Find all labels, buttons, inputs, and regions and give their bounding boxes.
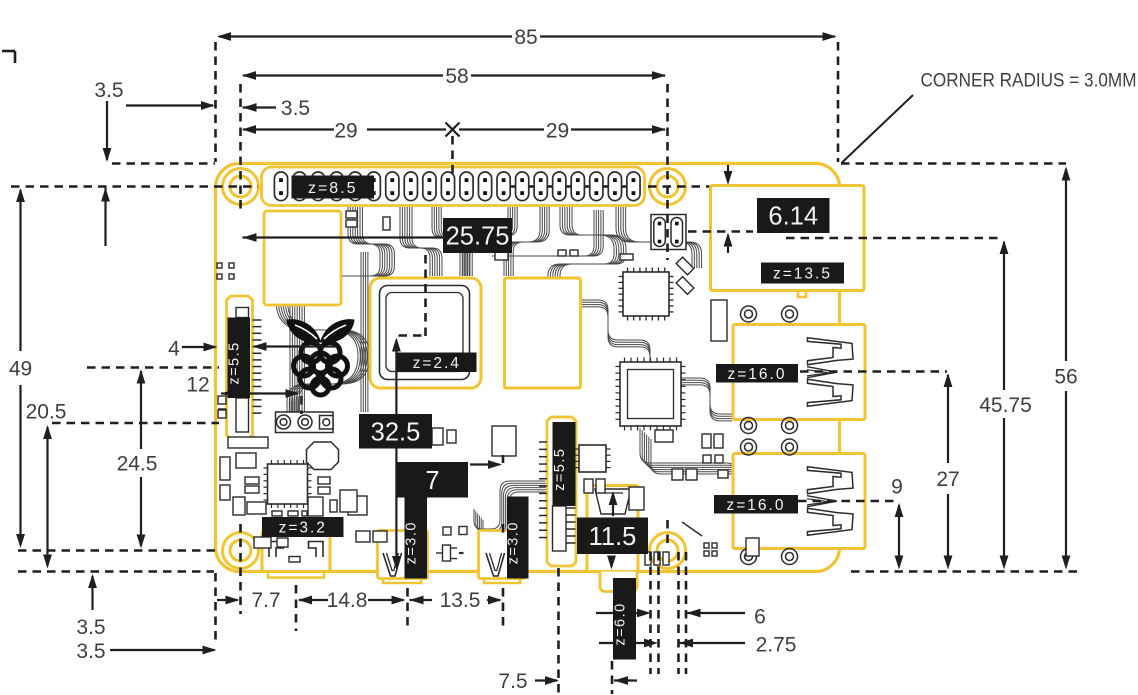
run/solder pads xyxy=(276,412,334,433)
SOT23 transistor xyxy=(443,545,451,561)
dashed v camera centre xyxy=(557,568,560,694)
label 7 xyxy=(397,462,468,498)
crystal octagon xyxy=(307,442,339,470)
svg-text:4: 4 xyxy=(168,338,180,361)
label 25.75 xyxy=(443,218,512,253)
chip A (wireless) xyxy=(623,272,669,316)
dashed corner mark top-left xyxy=(2,50,15,53)
label z=3.0 V2 xyxy=(507,497,529,579)
svg-text:z=16.0: z=16.0 xyxy=(728,366,787,383)
dashed v hole BL below xyxy=(239,524,242,614)
dim 6 xyxy=(596,612,646,614)
USB port A (upper) xyxy=(733,325,865,420)
trace bundle hook below 7 label xyxy=(474,481,545,529)
dashed h usbB centre xyxy=(798,500,898,503)
trace bundle gpio centre down xyxy=(460,207,508,276)
label z=16.0 upper xyxy=(716,364,798,383)
mounting hole TR xyxy=(650,169,686,205)
svg-text:85: 85 xyxy=(514,26,537,49)
dashed h SoC centre xyxy=(399,334,426,337)
dim 13.5 xyxy=(410,596,424,605)
raspberry pi logo xyxy=(287,320,354,395)
dashed h bottom edge right xyxy=(851,570,1079,573)
dashed h eth centre 45.75 xyxy=(786,237,1003,240)
dashed v micro-usb centre xyxy=(295,585,298,631)
SoC inner outline xyxy=(380,286,470,380)
svg-text:58: 58 xyxy=(445,65,468,88)
dashed h usbA centre xyxy=(800,370,947,373)
diagonal parts near ethernet xyxy=(676,257,694,275)
dashed v SoC centre xyxy=(424,255,427,336)
dim 25.75 line xyxy=(243,233,257,242)
micro-USB power connector xyxy=(262,531,330,572)
svg-text:6.14: 6.14 xyxy=(768,203,818,231)
dashed h DSI centre xyxy=(87,366,219,369)
dim 6.14 arrows xyxy=(727,165,729,182)
connector V1 (z=3.0) xyxy=(378,531,428,579)
label z=5.5 DSI xyxy=(228,318,251,399)
label 11.5 xyxy=(577,518,648,555)
svg-text:z=6.0: z=6.0 xyxy=(613,602,629,645)
svg-text:z=5.5: z=5.5 xyxy=(227,341,243,384)
dashed v hole TR xyxy=(666,84,669,260)
svg-text:25.75: 25.75 xyxy=(446,223,510,251)
reserved area rectangle top-left xyxy=(264,211,341,305)
svg-text:2.75: 2.75 xyxy=(756,634,797,657)
svg-text:24.5: 24.5 xyxy=(117,453,158,476)
mounting hole BL xyxy=(223,533,259,569)
svg-text:12: 12 xyxy=(186,374,209,397)
label z=16.0 lower xyxy=(714,495,798,514)
svg-text:9: 9 xyxy=(891,476,903,499)
trace bundle gpio col4 down xyxy=(432,207,463,276)
trace bundle gpio col6 down xyxy=(504,207,540,276)
chip C (PMIC) xyxy=(268,464,308,504)
dashed v 85 left xyxy=(214,42,217,162)
dim 85 xyxy=(219,35,512,37)
dashed v 29 centre xyxy=(451,136,454,174)
small parts scatter xyxy=(443,527,451,535)
DSI display connector xyxy=(227,296,253,439)
dashed v 85 right xyxy=(837,42,840,162)
dim 29 right xyxy=(459,128,544,130)
svg-text:CORNER RADIUS = 3.0MM: CORNER RADIUS = 3.0MM xyxy=(921,70,1137,92)
svg-text:z=3.0: z=3.0 xyxy=(506,521,522,564)
svg-text:z=8.5: z=8.5 xyxy=(308,180,358,197)
SoC (BCM) package xyxy=(370,278,481,388)
corner radius leader xyxy=(842,95,914,163)
trace bundle gpio-mid snake xyxy=(548,207,614,292)
svg-text:3.5: 3.5 xyxy=(76,640,105,663)
trace bundle memory to chip A xyxy=(582,300,650,358)
GPIO header outline xyxy=(262,167,645,206)
svg-text:z=5.5: z=5.5 xyxy=(552,448,568,491)
dim 11.5 arrows xyxy=(612,494,614,516)
camera connector tab xyxy=(553,506,567,551)
svg-text:32.5: 32.5 xyxy=(371,418,421,446)
dashed v 58 left / hole TL xyxy=(239,84,242,212)
dashed v hole BR above xyxy=(666,520,669,545)
dim 3.5 vertical lower arrow xyxy=(101,188,110,202)
mounting hole TL xyxy=(223,169,259,205)
trace bundle left loops around logo xyxy=(276,230,358,428)
svg-text:49: 49 xyxy=(9,358,32,381)
USB receptacle icons xyxy=(808,338,854,365)
audio jack barrel xyxy=(600,572,637,592)
svg-text:z=2.4: z=2.4 xyxy=(413,355,461,372)
USB mounting pin circles xyxy=(741,306,757,322)
label 32.5 xyxy=(359,414,432,449)
memory chip xyxy=(505,278,581,388)
dim 7.7 xyxy=(217,599,238,601)
trace bundle gpio-right to ethernet chip xyxy=(616,207,692,268)
label z=3.2 micro-usb xyxy=(262,517,344,537)
chip B (USB/LAN controller) xyxy=(620,362,681,426)
dim 49 xyxy=(19,190,21,351)
DSI pin comb xyxy=(253,319,262,321)
dim 58 xyxy=(243,74,443,76)
svg-text:z=16.0: z=16.0 xyxy=(727,497,786,514)
PoE header pins xyxy=(651,215,686,250)
chip D xyxy=(579,445,606,472)
audio jack interior xyxy=(595,489,631,514)
connector V2 (z=3.0) xyxy=(479,531,526,579)
USB port B (lower) xyxy=(733,454,865,549)
dashed h eth 6.14 line xyxy=(688,230,753,233)
svg-text:z=3.2: z=3.2 xyxy=(279,520,327,537)
dim 2.75 xyxy=(599,642,654,644)
dim 27 xyxy=(947,375,949,463)
dashed v V2 centre xyxy=(502,588,505,631)
dashed v V1 centre xyxy=(406,588,409,631)
dim 29 left xyxy=(243,128,334,130)
trace bundle lan to usb xyxy=(640,428,736,518)
dashed v group near BR hole xyxy=(649,552,652,674)
svg-text:7: 7 xyxy=(425,467,439,495)
svg-text:14.8: 14.8 xyxy=(327,589,368,612)
label 6.14 xyxy=(757,198,830,233)
dashed v 7 ref short xyxy=(502,455,505,463)
trace bundle gpio-left to left side xyxy=(290,207,380,425)
trace bundle gpio to soc top xyxy=(400,207,430,276)
ethernet jack xyxy=(711,186,865,291)
dashed v audio centre below label xyxy=(611,661,614,694)
camera connector (CSI) xyxy=(547,417,576,566)
svg-text:45.75: 45.75 xyxy=(979,394,1032,417)
svg-text:z=3.0: z=3.0 xyxy=(404,521,420,564)
dashed h top edge left xyxy=(112,162,215,165)
V1 connector slot xyxy=(383,553,402,576)
svg-text:3.5: 3.5 xyxy=(76,616,105,639)
dashed h top edge right xyxy=(841,162,1066,165)
label z=2.4 xyxy=(397,353,477,373)
dim 56 xyxy=(1065,169,1067,361)
audio jack body xyxy=(587,486,638,572)
svg-text:6: 6 xyxy=(754,606,766,629)
svg-text:3.5: 3.5 xyxy=(281,97,310,120)
svg-text:11.5: 11.5 xyxy=(589,523,637,551)
trace bundle left of soc xyxy=(360,252,362,412)
GPIO pin pairs xyxy=(274,172,287,201)
dim 32.5 line xyxy=(395,340,397,567)
label z=8.5 xyxy=(292,176,375,199)
svg-text:27: 27 xyxy=(936,468,959,491)
label z=3.0 V1 xyxy=(405,497,428,579)
DSI connector tabs xyxy=(236,308,249,318)
svg-text:3.5: 3.5 xyxy=(94,79,123,102)
diagonal trace near BR hole xyxy=(682,522,702,536)
svg-text:13.5: 13.5 xyxy=(440,589,481,612)
dim 9 xyxy=(898,505,900,566)
micro-USB interior xyxy=(269,542,284,558)
dashed h hole BL xyxy=(18,549,220,552)
dashed v board left below xyxy=(214,573,217,645)
label z=13.5 xyxy=(761,263,844,284)
mounting hole BR xyxy=(650,533,686,569)
dim 45.75 xyxy=(1003,242,1005,390)
dim 14.8 xyxy=(368,599,404,601)
label z=6.0 audio xyxy=(613,578,636,660)
dim 20.5 xyxy=(46,427,48,566)
trace bundle chipB to usb1 xyxy=(681,378,732,414)
board outline xyxy=(216,164,840,572)
dashed v 12 ref xyxy=(300,396,303,414)
dashed hole centre line through header xyxy=(11,185,258,188)
svg-text:29: 29 xyxy=(546,120,569,143)
ethernet jack bottom stub xyxy=(798,291,806,298)
dim 24.5 xyxy=(140,371,142,449)
svg-text:7.7: 7.7 xyxy=(251,589,280,612)
trace bundle above memory xyxy=(492,210,594,256)
dashed h bottom edge left xyxy=(18,570,214,573)
svg-text:56: 56 xyxy=(1054,366,1077,389)
label z=5.5 camera xyxy=(553,422,576,506)
svg-text:20.5: 20.5 xyxy=(26,401,67,424)
dashed h 20.5 ref xyxy=(52,422,219,425)
dim 7 arrow xyxy=(470,463,500,465)
svg-text:7.5: 7.5 xyxy=(498,670,527,693)
V2 connector slot xyxy=(486,553,505,576)
camera pin comb xyxy=(539,441,547,443)
svg-text:z=13.5: z=13.5 xyxy=(773,266,832,283)
svg-text:29: 29 xyxy=(334,120,357,143)
